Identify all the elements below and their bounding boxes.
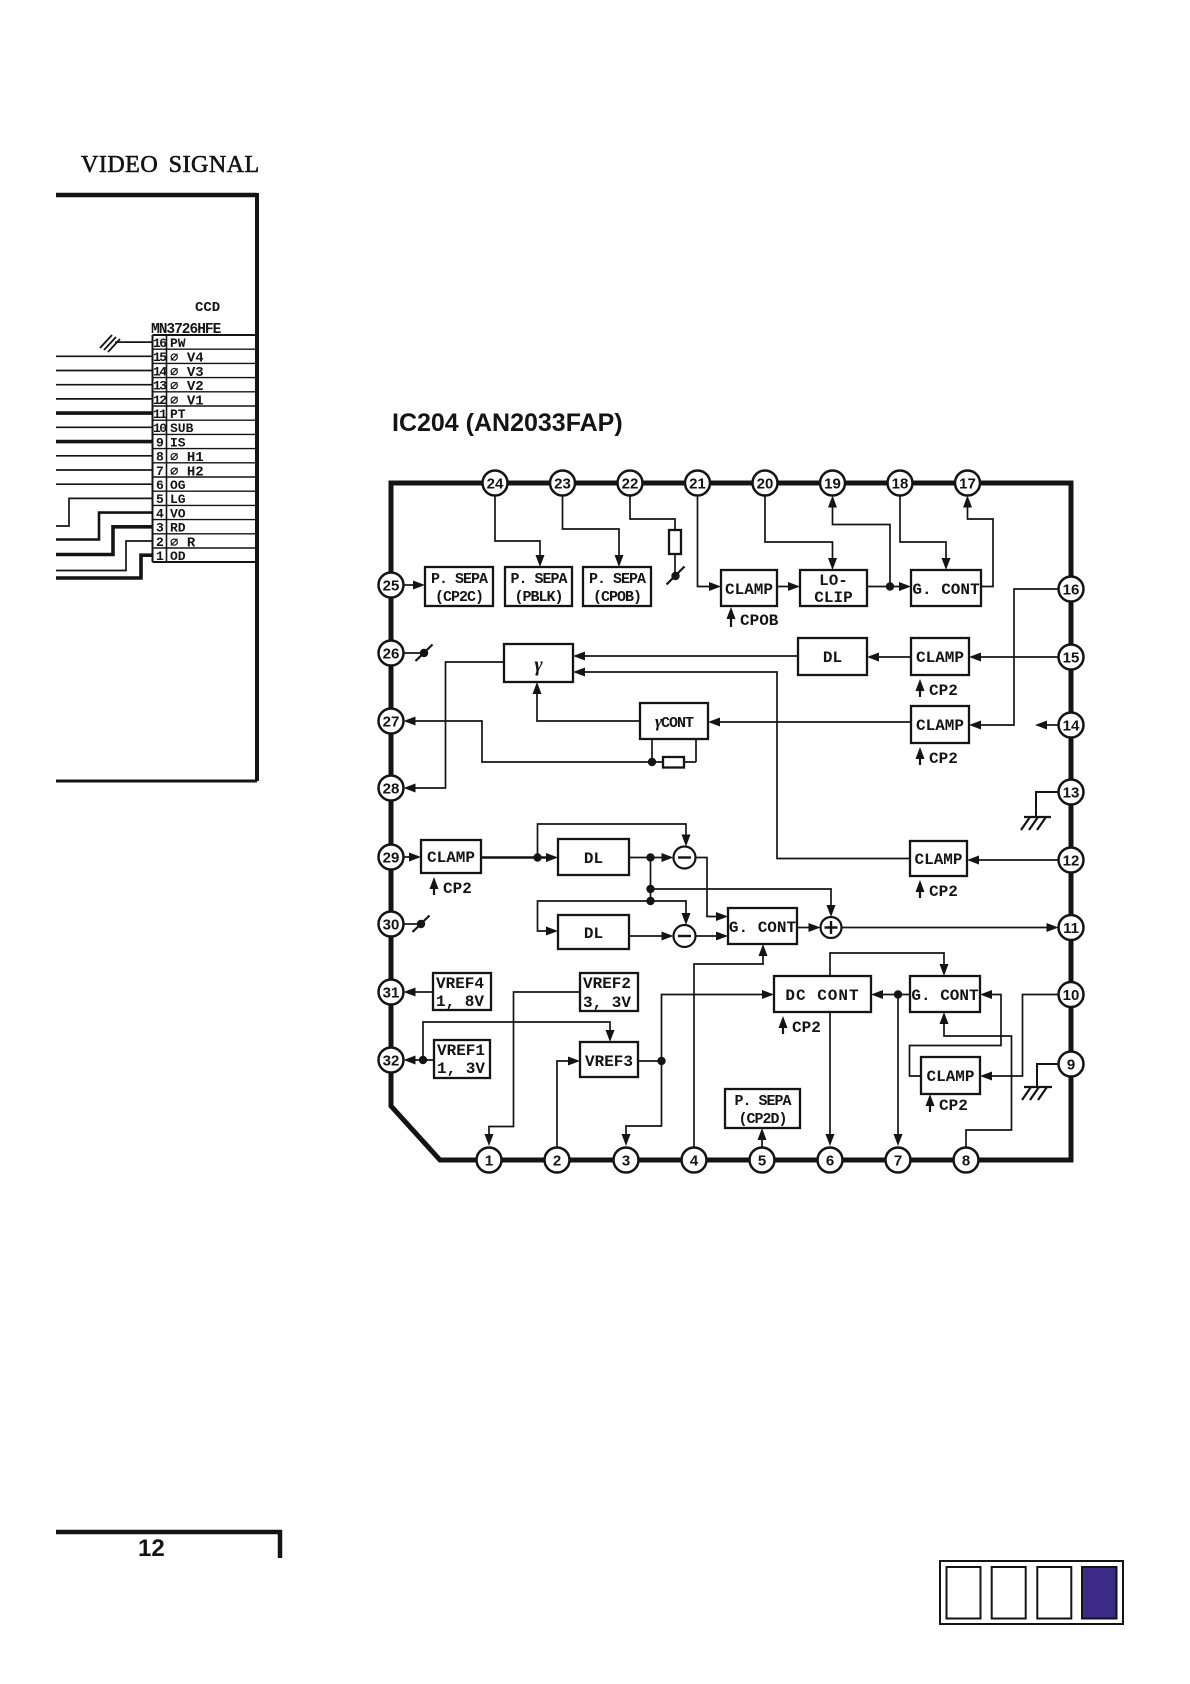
wire: schematic frame bottom edge bbox=[56, 780, 257, 783]
svg-text:(CP2C): (CP2C) bbox=[435, 589, 483, 606]
wire minus2 to G.CONT lower input bbox=[696, 935, 718, 937]
wire pin 7 bbox=[56, 469, 153, 471]
block VREF3 bbox=[580, 1042, 638, 1077]
svg-text:1, 3V: 1, 3V bbox=[437, 1060, 485, 1078]
svg-text:IC204 (AN2033FAP): IC204 (AN2033FAP) bbox=[392, 409, 623, 437]
wire junction to pin27 bbox=[414, 721, 652, 762]
svg-text:CLAMP: CLAMP bbox=[916, 649, 964, 667]
wire pin2 to VREF3 bbox=[557, 1061, 569, 1148]
svg-text:15: 15 bbox=[153, 350, 167, 365]
svg-text:10: 10 bbox=[1063, 987, 1080, 1004]
wire adder to pin11 bbox=[842, 927, 1049, 929]
svg-text:LO-: LO- bbox=[819, 572, 848, 590]
svg-text:9: 9 bbox=[156, 435, 164, 450]
pin 13 bbox=[1059, 780, 1084, 805]
wire junction to pin7 bbox=[897, 995, 899, 1137]
svg-text:16: 16 bbox=[153, 336, 167, 351]
trimmer contact at pin26 bbox=[404, 652, 422, 654]
wire gammaCONT to gamma bottom bbox=[537, 687, 640, 721]
svg-text:VREF3: VREF3 bbox=[585, 1053, 633, 1071]
wire pin15 to CLAMP(pin15) bbox=[981, 656, 1059, 658]
pin 10 bbox=[1059, 982, 1084, 1007]
wire pin14 stub arrow bbox=[1046, 724, 1059, 726]
block G.CONT (top) bbox=[911, 570, 981, 606]
svg-text:2: 2 bbox=[553, 1153, 561, 1170]
svg-text:P. SEPA: P. SEPA bbox=[734, 1093, 791, 1110]
wire resistor to trimmer stub bbox=[674, 554, 676, 572]
trimmer contact at pin30 bbox=[404, 923, 419, 925]
wire gamma left to pin28 bbox=[414, 662, 504, 788]
svg-text:19: 19 bbox=[824, 476, 841, 493]
connector pin table row lines bbox=[153, 349, 258, 548]
block P.SEPA (CP2C) bbox=[425, 567, 493, 606]
wire pin 1 step thick bbox=[56, 555, 153, 578]
block VREF1 1.3V bbox=[434, 1040, 490, 1078]
wire DC CONT to pin6 bbox=[829, 1012, 831, 1136]
wire pin 5 step bbox=[56, 498, 153, 526]
pin 8 bbox=[954, 1148, 979, 1173]
wire pin22 to resistor bbox=[630, 496, 675, 531]
wire G.CONT to pin17 bbox=[968, 501, 994, 587]
svg-text:15: 15 bbox=[1063, 650, 1080, 667]
pin 21 bbox=[685, 471, 710, 496]
IC U204 package outline bbox=[391, 483, 1071, 1160]
wire G.CONT to DC CONT bbox=[882, 994, 910, 996]
clamp pulse CP2 (DC CONT) bbox=[782, 1022, 784, 1034]
resistor (pin22 branch) bbox=[669, 530, 681, 554]
pin 7 bbox=[886, 1148, 911, 1173]
wire pin 10 bbox=[56, 426, 153, 428]
wire pin 2 step bbox=[56, 541, 153, 571]
svg-text:5: 5 bbox=[758, 1153, 766, 1170]
wire pin29 to CLAMP bbox=[404, 856, 411, 858]
svg-text:CP2: CP2 bbox=[929, 750, 958, 768]
svg-text:CPOB: CPOB bbox=[740, 612, 779, 630]
wire CLAMP to LO-CLIP bbox=[777, 586, 791, 588]
pin 32 bbox=[379, 1048, 404, 1073]
pin 14 bbox=[1059, 713, 1084, 738]
svg-text:20: 20 bbox=[757, 476, 774, 493]
ground at pin9 bbox=[1037, 1064, 1059, 1087]
svg-text:23: 23 bbox=[554, 476, 571, 493]
trimmer contact (pin22 branch) bbox=[671, 572, 679, 580]
pin 1 bbox=[477, 1148, 502, 1173]
pin 6 bbox=[818, 1148, 843, 1173]
wire pin12 to CLAMP bbox=[979, 859, 1059, 861]
svg-text:RD: RD bbox=[170, 521, 186, 536]
block P.SEPA (CPOB) bbox=[583, 567, 651, 606]
svg-text:P. SEPA: P. SEPA bbox=[431, 571, 488, 588]
resistor (gammaCONT feedback) bbox=[663, 757, 684, 768]
block gamma bbox=[504, 644, 573, 682]
wire DL to minus1 bbox=[629, 857, 662, 859]
wire pin10 to CLAMP(pin9) bbox=[992, 995, 1059, 1077]
svg-text:VREF2: VREF2 bbox=[583, 975, 631, 993]
wire pin 9 thick bbox=[56, 440, 153, 444]
svg-text:3, 3V: 3, 3V bbox=[583, 994, 631, 1012]
pin 4 bbox=[682, 1148, 707, 1173]
svg-text:OG: OG bbox=[170, 478, 186, 493]
pin 11 bbox=[1059, 915, 1084, 940]
svg-text:32: 32 bbox=[383, 1053, 400, 1070]
clamp pulse input CPOB bbox=[730, 613, 732, 627]
svg-text:27: 27 bbox=[383, 714, 400, 731]
wire: schematic frame right edge bbox=[255, 193, 259, 781]
svg-text:14: 14 bbox=[1063, 718, 1080, 735]
wire pin 4 step thick bbox=[56, 513, 153, 540]
svg-text:28: 28 bbox=[383, 781, 400, 798]
wire pin 13 bbox=[56, 384, 153, 386]
block VREF2 3.3V bbox=[580, 973, 638, 1011]
node VREF1 junction bbox=[419, 1056, 427, 1064]
pin 29 bbox=[379, 845, 404, 870]
svg-text:G. CONT: G. CONT bbox=[911, 987, 979, 1005]
pin 17 bbox=[955, 471, 980, 496]
svg-text:14: 14 bbox=[153, 364, 167, 379]
wire branch loop to DL (lower) bbox=[538, 901, 651, 931]
svg-text:CLAMP: CLAMP bbox=[914, 851, 962, 869]
wire pin20 to LO-CLIP top bbox=[765, 496, 833, 565]
wire junction loop over DL to minus1 top bbox=[538, 824, 687, 858]
wire DL to minus2 bbox=[629, 935, 662, 937]
pin 24 bbox=[483, 471, 508, 496]
wire VREF4 to pin31 bbox=[414, 991, 433, 993]
wire junction chain down bbox=[650, 858, 652, 902]
svg-text:2: 2 bbox=[156, 535, 164, 550]
svg-text:DL: DL bbox=[584, 850, 603, 868]
wire pin 12 bbox=[56, 398, 153, 400]
page number 12 footer rule bbox=[56, 1532, 280, 1558]
wire pin 8 bbox=[56, 455, 153, 457]
svg-text:VREF4: VREF4 bbox=[436, 975, 484, 993]
gammaCONT bottom legs bbox=[652, 739, 696, 762]
node VREF3 output junction bbox=[657, 1057, 665, 1065]
block CLAMP (pin9) bbox=[921, 1057, 980, 1094]
block CLAMP (pin29) bbox=[421, 840, 481, 873]
pin 20 bbox=[753, 471, 778, 496]
wire VREF3 output node bbox=[638, 1060, 662, 1062]
ground at pin13 bbox=[1036, 792, 1059, 817]
wire node to DC CONT bbox=[662, 995, 764, 1062]
wire junction to VREF3 top bbox=[423, 1022, 610, 1060]
wire pin24 to P.SEPA(PBLK) bbox=[495, 496, 540, 564]
svg-text:7: 7 bbox=[156, 464, 164, 479]
shield mark at pin 16 bbox=[100, 335, 120, 352]
block CLAMP (pin14) bbox=[911, 706, 969, 743]
pin 25 bbox=[379, 573, 404, 598]
svg-text:VIDEO SIGNAL: VIDEO SIGNAL bbox=[81, 152, 260, 178]
svg-text:CCD: CCD bbox=[195, 300, 220, 316]
block P.SEPA (PBLK) bbox=[505, 567, 572, 606]
svg-text:CP2: CP2 bbox=[929, 883, 958, 901]
block CLAMP (pin15) bbox=[911, 638, 969, 675]
block G.CONT (right) bbox=[910, 976, 980, 1012]
svg-text:5: 5 bbox=[156, 492, 164, 507]
wire pin23 to P.SEPA(CPOB) bbox=[563, 496, 620, 564]
node branch to lower loop bbox=[646, 897, 654, 905]
wire pin5 to P.SEPA(CP2D) bbox=[761, 1133, 763, 1148]
adder plus bbox=[821, 917, 842, 938]
block CLAMP (pin12) bbox=[910, 841, 967, 876]
wire pin25 to P.SEPA(CP2C) bbox=[404, 584, 415, 586]
block CLAMP (pin21) bbox=[721, 570, 777, 606]
svg-text:7: 7 bbox=[894, 1153, 902, 1170]
wire node to pin3 bbox=[626, 1061, 662, 1136]
svg-text:21: 21 bbox=[689, 476, 706, 493]
svg-text:8: 8 bbox=[156, 450, 164, 465]
svg-text:31: 31 bbox=[383, 985, 400, 1002]
wire pin16 PW stub bbox=[115, 341, 153, 343]
svg-text:CLAMP: CLAMP bbox=[916, 717, 964, 735]
svg-text:IS: IS bbox=[170, 435, 186, 450]
clamp pulse CP2 (pin29 clamp) bbox=[433, 883, 435, 895]
node LO-CLIP output junction bbox=[886, 582, 894, 590]
wire CLAMP to DL (upper) bbox=[481, 856, 547, 859]
revision squares box bbox=[940, 1561, 1123, 1624]
node CLAMP output junction bbox=[533, 853, 541, 861]
wire CLAMP(pin14) to gammaCONT bbox=[720, 721, 911, 723]
svg-text:P. SEPA: P. SEPA bbox=[510, 571, 567, 588]
svg-text:29: 29 bbox=[383, 850, 400, 867]
svg-text:3: 3 bbox=[622, 1153, 630, 1170]
wire pin 3 step thick bbox=[56, 527, 153, 555]
svg-text:PT: PT bbox=[170, 407, 186, 422]
svg-text:8: 8 bbox=[962, 1153, 970, 1170]
svg-text:DC CONT: DC CONT bbox=[785, 987, 859, 1005]
pin 16 bbox=[1059, 577, 1084, 602]
svg-text:G. CONT: G. CONT bbox=[729, 919, 797, 937]
pin 30 bbox=[379, 912, 404, 937]
clamp pulse CP2 (pin15 clamp) bbox=[919, 685, 921, 697]
svg-text:SUB: SUB bbox=[170, 421, 194, 436]
svg-text:24: 24 bbox=[487, 476, 504, 493]
wire: schematic frame top edge bbox=[56, 193, 257, 198]
svg-text:CLAMP: CLAMP bbox=[725, 581, 773, 599]
wire pin8 to G.CONT bottom bbox=[944, 1018, 1012, 1148]
svg-text:11: 11 bbox=[153, 407, 167, 422]
clamp pulse CP2 (pin14 clamp) bbox=[919, 753, 921, 765]
wire CLAMP to DL bbox=[879, 656, 911, 658]
wire junction to pin19 bbox=[833, 501, 891, 587]
pin 3 bbox=[614, 1148, 639, 1173]
pin 31 bbox=[379, 980, 404, 1005]
svg-text:13: 13 bbox=[1063, 785, 1080, 802]
wire DC CONT top to G.CONT top bbox=[830, 953, 944, 976]
svg-text:1, 8V: 1, 8V bbox=[436, 993, 484, 1011]
svg-text:26: 26 bbox=[383, 646, 400, 663]
svg-text:17: 17 bbox=[959, 476, 976, 493]
block DC CONT bbox=[774, 976, 871, 1012]
block DL (pin15 row) bbox=[798, 638, 867, 675]
svg-text:CP2: CP2 bbox=[443, 880, 472, 898]
svg-text:γCONT: γCONT bbox=[655, 712, 694, 732]
svg-text:9: 9 bbox=[1067, 1057, 1075, 1074]
svg-text:12: 12 bbox=[138, 1535, 165, 1562]
svg-text:G. CONT: G. CONT bbox=[912, 581, 980, 599]
wire pin 6 bbox=[56, 483, 153, 485]
wire pin21 to CLAMP bbox=[698, 496, 712, 587]
node G.CONT input junction bbox=[894, 990, 902, 998]
pin 18 bbox=[888, 471, 913, 496]
wire pin 11 thick bbox=[56, 411, 153, 415]
svg-text:30: 30 bbox=[383, 917, 400, 934]
node branch to adder bbox=[646, 885, 654, 893]
pin 5 bbox=[750, 1148, 775, 1173]
svg-text:CP2: CP2 bbox=[939, 1097, 968, 1115]
svg-text:3: 3 bbox=[156, 521, 164, 536]
svg-text:(CP2D): (CP2D) bbox=[738, 1111, 786, 1128]
svg-text:CLAMP: CLAMP bbox=[427, 849, 475, 867]
svg-text:(CPOB): (CPOB) bbox=[593, 589, 641, 606]
wire branch to adder top bbox=[651, 889, 832, 908]
svg-text:4: 4 bbox=[156, 506, 164, 521]
pin 26 bbox=[379, 641, 404, 666]
svg-text:1: 1 bbox=[156, 549, 164, 564]
svg-text:6: 6 bbox=[826, 1153, 834, 1170]
svg-text:γ: γ bbox=[534, 654, 543, 676]
wire LO-CLIP to G.CONT bbox=[867, 586, 902, 588]
svg-text:CP2: CP2 bbox=[929, 682, 958, 700]
wire CLAMP(pin12) to gamma lower input bbox=[585, 672, 910, 859]
svg-text:10: 10 bbox=[153, 421, 167, 436]
svg-text:12: 12 bbox=[1063, 853, 1080, 870]
wire pin16 to CLAMP(pin14) bbox=[981, 589, 1059, 725]
wire VREF1 to pin32 bbox=[414, 1059, 434, 1061]
svg-text:DL: DL bbox=[584, 925, 603, 943]
subtractor minus2 bbox=[674, 925, 696, 947]
wire DL to gamma upper input bbox=[585, 655, 798, 657]
wire minus1 to G.CONT upper input bbox=[696, 858, 718, 917]
connector CCD pin table outline bbox=[153, 335, 258, 562]
svg-text:22: 22 bbox=[622, 476, 639, 493]
pin 12 bbox=[1059, 848, 1084, 873]
pin 22 bbox=[618, 471, 643, 496]
block P.SEPA (CP2D) bbox=[725, 1089, 800, 1128]
pin 9 bbox=[1059, 1052, 1084, 1077]
wire VREF2 to pin1 bbox=[489, 992, 580, 1136]
block VREF4 1.8V bbox=[433, 973, 491, 1010]
svg-text:CLAMP: CLAMP bbox=[926, 1068, 974, 1086]
block gamma CONT bbox=[640, 703, 708, 739]
clamp pulse CP2 (pin9 clamp) bbox=[929, 1100, 931, 1112]
svg-text:4: 4 bbox=[690, 1153, 699, 1170]
wire pin 14 bbox=[56, 370, 153, 372]
svg-text:CLIP: CLIP bbox=[814, 589, 852, 607]
svg-text:13: 13 bbox=[153, 379, 167, 394]
pin 19 bbox=[820, 471, 845, 496]
svg-text:25: 25 bbox=[383, 578, 400, 595]
block G.CONT (middle) bbox=[728, 908, 797, 944]
pin 2 bbox=[545, 1148, 570, 1173]
pin 15 bbox=[1059, 645, 1084, 670]
svg-text:VO: VO bbox=[170, 506, 186, 521]
svg-text:CP2: CP2 bbox=[792, 1019, 821, 1037]
block DL (upper) bbox=[558, 839, 629, 875]
block LO-CLIP bbox=[800, 570, 867, 606]
svg-text:P. SEPA: P. SEPA bbox=[589, 571, 646, 588]
svg-text:OD: OD bbox=[170, 549, 186, 564]
svg-text:6: 6 bbox=[156, 478, 164, 493]
svg-text:16: 16 bbox=[1063, 582, 1080, 599]
pin 27 bbox=[379, 709, 404, 734]
pin 23 bbox=[550, 471, 575, 496]
node DL output junction bbox=[646, 853, 654, 861]
node gammaCONT leg junction bbox=[648, 758, 656, 766]
svg-text:(PBLK): (PBLK) bbox=[514, 589, 562, 606]
svg-text:12: 12 bbox=[153, 393, 167, 408]
wire branch to minus2 top bbox=[651, 901, 687, 916]
wire pin4 to G.CONT bottom bbox=[694, 950, 763, 1148]
wire CLAMP(pin9) loop to G.CONT right input bbox=[910, 995, 1002, 1077]
svg-text:11: 11 bbox=[1063, 920, 1079, 937]
svg-text:VREF1: VREF1 bbox=[437, 1042, 485, 1060]
pin 28 bbox=[379, 776, 404, 801]
wire pin 15 bbox=[56, 355, 153, 357]
svg-text:LG: LG bbox=[170, 492, 186, 507]
wire G.CONT to adder bbox=[797, 927, 810, 929]
clamp pulse CP2 (pin12 clamp) bbox=[919, 886, 921, 898]
connector pin table number column divider bbox=[166, 335, 168, 562]
svg-text:DL: DL bbox=[823, 649, 842, 667]
svg-text:1: 1 bbox=[485, 1153, 493, 1170]
wire pin18 to G.CONT top bbox=[900, 496, 946, 565]
subtractor minus1 bbox=[674, 847, 696, 869]
svg-text:18: 18 bbox=[892, 476, 909, 493]
svg-text:PW: PW bbox=[170, 336, 186, 351]
block DL (lower) bbox=[558, 915, 629, 949]
